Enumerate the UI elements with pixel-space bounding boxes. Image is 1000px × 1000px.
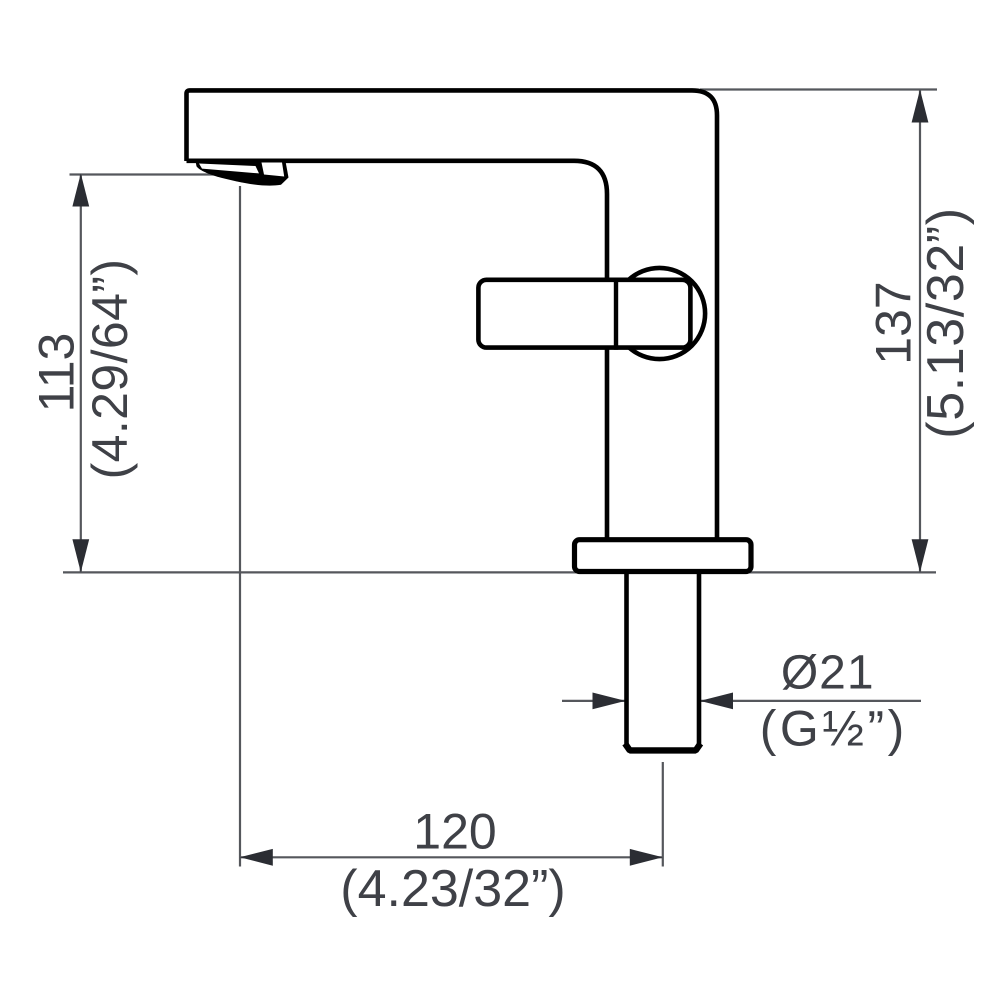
svg-text:(4.29/64”): (4.29/64”) (82, 259, 138, 480)
dimension line diameter 21 left segment (562, 700, 626, 702)
arrowhead 120 right (630, 849, 663, 866)
base plate (575, 540, 752, 572)
extension line counter level (full width) (63, 571, 936, 573)
svg-text:Ø21: Ø21 (781, 647, 875, 700)
arrowhead 137 bottom (912, 539, 929, 572)
svg-text:(4.23/32”): (4.23/32”) (340, 860, 565, 918)
shank bottom edge with chamfers (625, 744, 701, 751)
svg-text:137: 137 (866, 281, 922, 364)
arrowhead 120 left (240, 849, 273, 866)
handle lever rounded rect (478, 280, 690, 348)
arrowhead 113 bottom (72, 539, 89, 572)
aerator white facet left (199, 164, 259, 174)
svg-text:113: 113 (29, 333, 85, 413)
extension line 120 left (from aerator tip) (239, 186, 241, 867)
extension line faucet top (right) (700, 88, 937, 90)
shank right edge (697, 571, 702, 745)
aerator white facet right (262, 163, 285, 177)
arrowhead diameter21 right (700, 693, 733, 710)
arrowhead 113 top (72, 174, 89, 207)
dimension line 113 (80, 174, 82, 572)
handle divider line (614, 278, 618, 350)
extension line aerator tip level (left) (70, 173, 227, 175)
faucet outer outline: left edge, top edge, top-right corner, right edge (187, 90, 718, 539)
arrowhead diameter21 left (593, 693, 626, 710)
aerator nozzle (black wedge under spout tip) (195, 159, 289, 186)
svg-text:120: 120 (413, 804, 496, 860)
faucet body silhouette (184, 88, 719, 540)
shank left edge (624, 571, 629, 745)
extension line 120 right (from shank) (662, 762, 664, 867)
svg-text:(G½”): (G½”) (760, 701, 908, 757)
dimension line 120 (240, 856, 663, 858)
handle pivot circle (614, 268, 705, 359)
dimension line 137 (919, 90, 921, 572)
arrowhead 137 top (912, 90, 929, 123)
svg-text:(5.13/32”): (5.13/32”) (917, 207, 975, 438)
dimension line diameter 21 right segment (700, 700, 921, 702)
faucet spout bottom edge and inner corner to body left edge (187, 161, 608, 539)
